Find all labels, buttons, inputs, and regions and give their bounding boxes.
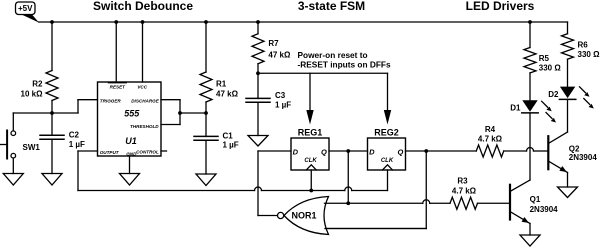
- node bus-R7: [256, 20, 260, 24]
- svg-text:R3: R3: [457, 177, 468, 186]
- transistor Q2: [548, 132, 597, 187]
- node Q1-NOR: [346, 201, 350, 205]
- node discharge-threshold: [178, 111, 182, 115]
- svg-text:VCC: VCC: [137, 84, 147, 89]
- svg-text:SW1: SW1: [23, 143, 41, 152]
- ground U1: [120, 174, 140, 186]
- node bus-RESET: [114, 20, 118, 24]
- svg-text:D: D: [369, 147, 375, 156]
- arrow to REG2: [384, 110, 391, 125]
- wire D1 cathode to Q1: [529, 113, 531, 180]
- node R1-C1: [204, 111, 208, 115]
- svg-text:C2: C2: [69, 131, 80, 140]
- capacitor C2: [40, 113, 85, 174]
- node bus-R1: [204, 20, 208, 24]
- resistor R7: [252, 22, 291, 73]
- wire CLK1: [310, 170, 312, 191]
- svg-text:47 kΩ: 47 kΩ: [216, 90, 239, 99]
- ground C2: [42, 174, 62, 186]
- svg-text:NOR1: NOR1: [291, 211, 316, 221]
- svg-text:Q: Q: [397, 148, 403, 157]
- svg-text:D1: D1: [510, 104, 521, 113]
- node R7-C3: [256, 71, 260, 75]
- wire RESET pin: [115, 22, 117, 82]
- svg-text:R2: R2: [32, 80, 43, 89]
- wire Q2 feedback: [425, 151, 427, 229]
- wire CLK2: [387, 170, 389, 191]
- op-amp U1 555 box: [98, 82, 162, 156]
- svg-text:RESET: RESET: [110, 84, 127, 89]
- resistor R1: [200, 22, 239, 113]
- svg-text:330 Ω: 330 Ω: [578, 50, 600, 59]
- svg-text:Q: Q: [321, 148, 327, 157]
- node clock-CLK1: [309, 189, 313, 193]
- svg-text:D: D: [293, 147, 299, 156]
- svg-text:Q2: Q2: [569, 144, 580, 153]
- wire clock net: [78, 190, 255, 192]
- svg-text:2N3904: 2N3904: [530, 205, 559, 214]
- ground SW1: [3, 174, 23, 186]
- switch SW1: [0, 113, 40, 174]
- flip-flop REG2: [368, 128, 406, 170]
- ground Q1: [520, 235, 540, 246]
- svg-text:D2: D2: [548, 90, 559, 99]
- wire Q1 to D2: [329, 150, 368, 152]
- node R2-C2-SW1: [50, 111, 54, 115]
- flip-flop REG1: [291, 128, 329, 170]
- wire NOR bottom input: [325, 228, 426, 230]
- svg-text:R4: R4: [485, 125, 496, 134]
- svg-text:330 Ω: 330 Ω: [539, 64, 562, 73]
- wire GND pin: [129, 156, 131, 174]
- svg-text:47 kΩ: 47 kΩ: [268, 51, 291, 60]
- wire annotation: [258, 72, 388, 74]
- svg-text:2N3904: 2N3904: [569, 153, 598, 162]
- svg-text:R1: R1: [216, 80, 227, 89]
- wire OUTPUT pin: [78, 150, 98, 152]
- wire trigger net: [13, 112, 78, 114]
- wire THRESHOLD pin: [161, 124, 180, 126]
- svg-text:4.7 kΩ: 4.7 kΩ: [478, 134, 503, 143]
- gate NOR1: [278, 197, 329, 235]
- svg-text:R5: R5: [539, 54, 550, 63]
- svg-text:10 kΩ: 10 kΩ: [21, 90, 44, 99]
- resistor R4: [476, 125, 503, 157]
- svg-text:1 µF: 1 µF: [223, 141, 239, 150]
- supply +5V: [16, 2, 40, 23]
- svg-text:TRIGGER: TRIGGER: [100, 99, 122, 104]
- svg-text:C3: C3: [275, 91, 286, 100]
- resistor R3: [450, 177, 477, 210]
- svg-text:555: 555: [124, 109, 140, 119]
- wire Q2 net: [406, 150, 477, 152]
- svg-text:-RESET inputs on DFFs: -RESET inputs on DFFs: [298, 59, 391, 69]
- svg-text:Q1: Q1: [530, 195, 541, 204]
- svg-text:THRESHOLD: THRESHOLD: [130, 124, 159, 129]
- svg-text:R7: R7: [268, 39, 279, 48]
- node Q1: [346, 149, 350, 153]
- svg-text:1 µF: 1 µF: [69, 140, 85, 149]
- wire DISCHARGE pin: [161, 99, 180, 101]
- capacitor C3: [246, 73, 291, 135]
- svg-text:Switch Debounce: Switch Debounce: [93, 0, 193, 13]
- capacitor C1: [194, 113, 239, 174]
- svg-text:DISCHARGE: DISCHARGE: [131, 99, 160, 104]
- transistor Q1: [510, 180, 558, 235]
- svg-text:R6: R6: [578, 41, 589, 50]
- resistor R2: [21, 22, 58, 113]
- LED D1: [510, 100, 556, 122]
- svg-text:4.7 kΩ: 4.7 kΩ: [452, 187, 477, 196]
- node bus-R2: [50, 20, 54, 24]
- wire CONTROL stub: [161, 150, 167, 152]
- wire D1 input net: [258, 150, 291, 152]
- resistor R5: [524, 22, 561, 100]
- svg-text:CLK: CLK: [304, 158, 317, 164]
- wire Q1 feedback: [347, 151, 349, 203]
- svg-text:1 µF: 1 µF: [275, 101, 291, 110]
- node bus-R5: [528, 20, 532, 24]
- node bus-VCC: [141, 20, 145, 24]
- resistor R6: [562, 22, 600, 87]
- wire D2 cathode to Q2: [567, 99, 569, 132]
- svg-text:OUTPUT: OUTPUT: [100, 150, 120, 155]
- LED D2: [548, 87, 594, 109]
- arrow to REG1: [306, 110, 313, 125]
- svg-text:U1: U1: [125, 136, 137, 146]
- svg-text:REG1: REG1: [298, 128, 323, 138]
- svg-text:REG2: REG2: [374, 128, 399, 138]
- node Q2: [424, 149, 428, 153]
- svg-text:LED Drivers: LED Drivers: [466, 0, 535, 13]
- svg-text:3-state FSM: 3-state FSM: [298, 0, 365, 13]
- wire VCC pin: [142, 22, 144, 82]
- wire NOR top input / R3 net: [325, 202, 423, 204]
- ground C1: [196, 174, 216, 186]
- wire +5V bus: [39, 21, 568, 23]
- svg-text:CONTROL: CONTROL: [136, 149, 159, 154]
- svg-text:+5V: +5V: [18, 4, 33, 13]
- ground C3: [248, 136, 268, 147]
- svg-text:C1: C1: [223, 131, 234, 140]
- svg-text:CLK: CLK: [381, 158, 394, 164]
- ground Q2: [558, 187, 578, 198]
